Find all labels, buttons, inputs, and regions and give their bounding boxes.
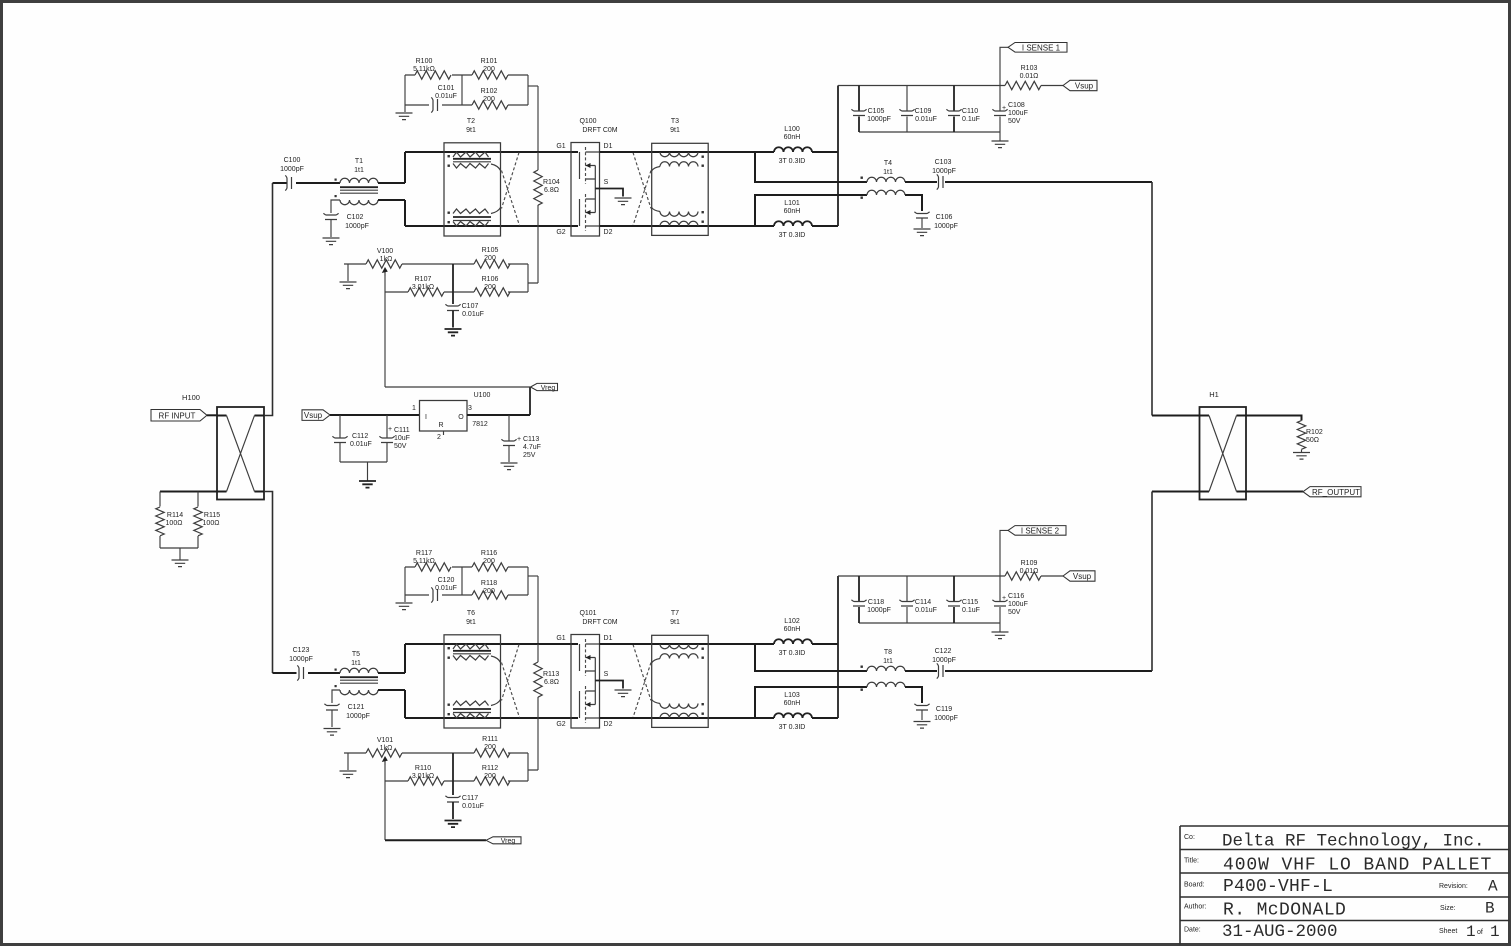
svg-text:C117: C117 bbox=[462, 795, 478, 802]
svg-text:2: 2 bbox=[437, 434, 441, 441]
svg-text:0.01Ω: 0.01Ω bbox=[1020, 568, 1039, 575]
wire: T7 input crossover X bbox=[633, 645, 651, 718]
net tag Vreg (top) bbox=[531, 383, 558, 391]
wire: supply rail vertical bbox=[837, 86, 839, 227]
svg-text:L101: L101 bbox=[784, 200, 800, 207]
svg-text:I SENSE 2: I SENSE 2 bbox=[1021, 527, 1060, 536]
svg-text:I: I bbox=[425, 414, 427, 421]
wire: H1 bottom port from column bbox=[1152, 491, 1200, 493]
svg-text:0.1uF: 0.1uF bbox=[962, 607, 980, 614]
inductor L103 60nH bbox=[774, 692, 812, 731]
wire: L101 to supply rail bbox=[812, 225, 838, 227]
ground below C119 bbox=[914, 722, 931, 729]
svg-text:50Ω: 50Ω bbox=[1306, 437, 1319, 444]
capacitor C107 0.01uF bbox=[445, 303, 483, 328]
wire: gate bias box bottom row (C101/R102 row) bbox=[405, 104, 528, 106]
capacitor C106 1000pF bbox=[914, 212, 957, 230]
svg-text:1000pF: 1000pF bbox=[932, 168, 956, 175]
wire: I SENSE 2 stub bbox=[1000, 530, 1008, 576]
svg-text:C120: C120 bbox=[438, 577, 455, 584]
node D1 wire lower (Q101 through T7) bbox=[600, 643, 775, 645]
svg-text:T6: T6 bbox=[467, 610, 475, 617]
svg-text:9t1: 9t1 bbox=[670, 127, 680, 134]
wire: lower bank ground stem bbox=[999, 623, 1001, 632]
svg-text:T1: T1 bbox=[355, 158, 363, 165]
svg-text:R104: R104 bbox=[543, 179, 560, 186]
node G1 wire bbox=[405, 151, 578, 153]
svg-text:G1: G1 bbox=[556, 635, 565, 642]
transformer T2 9t1 bbox=[444, 118, 501, 236]
wire: I SENSE 1 stub bbox=[1000, 47, 1008, 85]
svg-text:R116: R116 bbox=[481, 550, 497, 557]
wire: rise to T4 lower line bbox=[755, 195, 867, 226]
svg-text:400W VHF LO BAND PALLET: 400W VHF LO BAND PALLET bbox=[1223, 856, 1492, 876]
ground below C113 bbox=[501, 463, 518, 470]
wire: bias box mid vertical bbox=[461, 75, 463, 105]
resistor R116 200 bbox=[472, 563, 508, 571]
wire: V101 wiper vertical to lower Vreg line bbox=[384, 765, 386, 840]
svg-text:200: 200 bbox=[484, 255, 496, 262]
svg-text:C113: C113 bbox=[523, 436, 539, 443]
resistor R100 5.11k bbox=[415, 71, 451, 79]
wire: lower output vertical up to H1 bbox=[1151, 492, 1153, 672]
wire: L102 to lower supply rail bbox=[812, 643, 838, 645]
svg-text:Board:: Board: bbox=[1184, 882, 1205, 889]
capacitor C100 1000pF bbox=[285, 175, 291, 190]
svg-text:7812: 7812 bbox=[472, 421, 488, 428]
wire: RF INPUT to H100 bbox=[207, 414, 217, 416]
svg-text:60nH: 60nH bbox=[784, 134, 801, 141]
svg-text:6.8Ω: 6.8Ω bbox=[544, 679, 559, 686]
transformer T8 1t1 bbox=[861, 649, 906, 691]
svg-text:1kΩ: 1kΩ bbox=[380, 745, 393, 752]
ground below C102 bbox=[323, 238, 340, 245]
svg-text:Vsup: Vsup bbox=[1075, 82, 1094, 91]
transistor Q100 DRFT COM dual MOSFET bbox=[556, 118, 617, 236]
svg-text:0.01uF: 0.01uF bbox=[435, 93, 457, 100]
capacitor C101 0.01uF bbox=[431, 97, 437, 112]
resistor R118 200 bbox=[472, 591, 508, 599]
wire: input verticals joining T5 to lower G lines bbox=[404, 644, 406, 718]
svg-text:3T 0.3ID: 3T 0.3ID bbox=[779, 158, 806, 165]
svg-text:3.01kΩ: 3.01kΩ bbox=[412, 284, 434, 291]
svg-text:1000pF: 1000pF bbox=[934, 715, 958, 722]
wire: lower decoupling bank bottom rail bbox=[859, 622, 1000, 624]
ground at Q100 source bbox=[615, 198, 632, 205]
hybrid H1 bbox=[1200, 390, 1247, 500]
wire: V100 left lead and ground stem bbox=[344, 264, 366, 281]
capacitor C118 1000pF bbox=[851, 576, 890, 623]
svg-text:C111: C111 bbox=[394, 427, 410, 434]
svg-text:Vreg: Vreg bbox=[501, 838, 516, 845]
svg-text:1t1: 1t1 bbox=[354, 167, 364, 174]
ground below C121 bbox=[324, 729, 341, 736]
svg-text:Title:: Title: bbox=[1184, 858, 1199, 865]
ground below lower bias box bbox=[404, 595, 406, 602]
svg-text:RF_OUTPUT: RF_OUTPUT bbox=[1312, 488, 1360, 497]
svg-text:1: 1 bbox=[1466, 923, 1476, 941]
svg-text:C119: C119 bbox=[936, 706, 952, 713]
ground below bank bbox=[992, 141, 1009, 148]
node G2 wire bbox=[405, 225, 578, 227]
net tag I SENSE 2 bbox=[1008, 526, 1066, 536]
capacitor C114 0.01uF bbox=[899, 576, 936, 623]
svg-text:1000pF: 1000pF bbox=[932, 657, 956, 664]
net tag Vsup (top right) bbox=[1063, 80, 1097, 90]
wire: C102 drop from T1 bbox=[331, 200, 340, 237]
capacitor C121 1000pF bbox=[324, 704, 339, 710]
capacitor C109 0.01uF bbox=[899, 86, 936, 133]
svg-text:C121: C121 bbox=[348, 704, 365, 711]
inductor L101 60nH bbox=[774, 200, 812, 239]
svg-text:R106: R106 bbox=[482, 276, 499, 283]
svg-text:1000pF: 1000pF bbox=[867, 607, 891, 614]
svg-text:50V: 50V bbox=[1008, 609, 1021, 616]
wire: G2 bias vertical below bbox=[537, 226, 539, 283]
svg-text:60nH: 60nH bbox=[784, 208, 801, 215]
svg-text:C118: C118 bbox=[868, 599, 884, 606]
svg-text:DRFT C0M: DRFT C0M bbox=[582, 127, 617, 134]
wire: bias vertical down to lower G1 bbox=[537, 576, 539, 644]
svg-text:100uF: 100uF bbox=[1008, 601, 1028, 608]
wire: input verticals joining T1 to G lines bbox=[404, 152, 406, 226]
wire: lower output line to H1 column bbox=[945, 670, 1152, 672]
svg-text:C107: C107 bbox=[462, 303, 479, 310]
wire: H100 top out up to C100 line bbox=[264, 183, 273, 416]
svg-text:T7: T7 bbox=[671, 610, 679, 617]
svg-text:0.01uF: 0.01uF bbox=[462, 803, 484, 810]
svg-text:6.8Ω: 6.8Ω bbox=[544, 187, 559, 194]
svg-text:0.1uF: 0.1uF bbox=[962, 116, 980, 123]
wire: upper output line to H1 column bbox=[945, 181, 1152, 183]
resistor R104 6.8 (gate-gate) bbox=[534, 152, 560, 226]
svg-text:C103: C103 bbox=[935, 159, 952, 166]
svg-text:D2: D2 bbox=[604, 721, 613, 728]
svg-text:0.01uF: 0.01uF bbox=[915, 607, 937, 614]
capacitor C103 1000pF bbox=[937, 174, 943, 189]
svg-text:C116: C116 bbox=[1008, 593, 1024, 600]
capacitor C117 0.01uF bbox=[445, 795, 483, 819]
capacitor C108 100uF 50V bbox=[992, 86, 1027, 133]
svg-text:C123: C123 bbox=[293, 647, 310, 654]
svg-text:1: 1 bbox=[412, 405, 416, 412]
hybrid H100 bbox=[182, 393, 264, 500]
svg-text:1000pF: 1000pF bbox=[346, 713, 370, 720]
ground at V100 left bbox=[340, 282, 357, 289]
wire: lower supply rail vertical bbox=[837, 576, 839, 718]
net tag Vreg (bottom) bbox=[486, 837, 521, 845]
svg-text:L103: L103 bbox=[784, 692, 800, 699]
svg-text:R114: R114 bbox=[167, 512, 183, 519]
svg-text:60nH: 60nH bbox=[784, 626, 801, 633]
svg-text:D1: D1 bbox=[604, 143, 613, 150]
svg-text:200: 200 bbox=[483, 588, 495, 595]
wire: T5 secondary ends to vertical bbox=[378, 673, 405, 690]
wire: Vreg line to pot wiper bbox=[385, 386, 530, 388]
svg-text:H1: H1 bbox=[1209, 390, 1219, 399]
transformer T4 1t1 bbox=[861, 160, 906, 199]
resistor R111 200 bbox=[474, 736, 510, 757]
capacitor C119 1000pF bbox=[914, 704, 957, 722]
resistor R113 6.8 (gate-gate lower) bbox=[534, 644, 560, 718]
svg-text:C110: C110 bbox=[962, 108, 978, 115]
wire: lower decoupling bank top rail bbox=[838, 575, 1005, 577]
potentiometer V101 1k bbox=[366, 737, 402, 765]
transformer T5 1t1 bbox=[335, 651, 379, 695]
svg-text:C102: C102 bbox=[347, 214, 364, 221]
svg-text:R102: R102 bbox=[1306, 429, 1323, 436]
capacitor C111 10uF 50V bbox=[379, 415, 410, 462]
svg-text:R117: R117 bbox=[416, 550, 432, 557]
svg-text:9t1: 9t1 bbox=[466, 127, 476, 134]
wire: T4 top out to C103 bbox=[905, 181, 937, 183]
wire: T6 output crossover X bbox=[502, 645, 520, 718]
svg-text:0.01Ω: 0.01Ω bbox=[1020, 73, 1039, 80]
wire: bias box left vertical bbox=[404, 75, 406, 105]
svg-text:200: 200 bbox=[484, 773, 496, 780]
svg-text:31-AUG-2000: 31-AUG-2000 bbox=[1222, 922, 1338, 942]
svg-text:G2: G2 bbox=[556, 229, 565, 236]
ground below C112/C111 bbox=[359, 481, 376, 488]
svg-text:T5: T5 bbox=[352, 651, 360, 658]
svg-text:Size:: Size: bbox=[1440, 905, 1456, 912]
net tag RF INPUT bbox=[151, 410, 207, 422]
net tag RF_OUTPUT bbox=[1303, 487, 1361, 497]
ground below C107 bbox=[445, 329, 462, 336]
svg-text:V100: V100 bbox=[377, 248, 393, 255]
inductor L102 60nH bbox=[774, 618, 812, 657]
wire: T4 bottom out bbox=[905, 195, 922, 211]
wire: C123 line from input vertical bbox=[273, 672, 341, 674]
wire: lower bias right edge vertical + stub bbox=[528, 753, 538, 781]
capacitor C123 1000pF bbox=[297, 665, 303, 680]
node D2 wire lower (Q101 through T7) bbox=[600, 717, 775, 719]
svg-text:200: 200 bbox=[484, 744, 496, 751]
svg-text:Date:: Date: bbox=[1184, 927, 1201, 934]
svg-text:1000pF: 1000pF bbox=[934, 223, 958, 230]
resistor R106 200 bbox=[474, 276, 510, 296]
ground below bias box bbox=[404, 105, 406, 112]
wire: Q100 source to ground bbox=[595, 189, 623, 197]
ground below load bbox=[1293, 453, 1310, 460]
svg-text:I SENSE 1: I SENSE 1 bbox=[1022, 44, 1061, 53]
wire: Vsup to U100 pin1 bbox=[330, 414, 420, 416]
svg-text:C108: C108 bbox=[1008, 102, 1025, 109]
wire: bank ground stem bbox=[999, 132, 1001, 141]
svg-text:200: 200 bbox=[484, 284, 496, 291]
svg-text:T4: T4 bbox=[884, 160, 892, 167]
svg-text:10uF: 10uF bbox=[394, 435, 410, 442]
transformer T1 1t1 bbox=[335, 158, 379, 205]
svg-text:D2: D2 bbox=[604, 229, 613, 236]
wire: termination bottom rail + ground stem bbox=[160, 548, 198, 560]
wire: lower bias box bottom row (C120/R118 row) bbox=[405, 594, 528, 596]
capacitor C116 100uF 50V bbox=[992, 576, 1027, 623]
svg-text:R113: R113 bbox=[543, 671, 559, 678]
svg-text:200: 200 bbox=[483, 558, 495, 565]
svg-text:C101: C101 bbox=[438, 85, 455, 92]
wire: T2 output crossover X bbox=[502, 153, 520, 226]
wire: C121 drop from T5 bbox=[332, 690, 340, 727]
svg-text:3T 0.3ID: 3T 0.3ID bbox=[779, 650, 806, 657]
svg-text:100Ω: 100Ω bbox=[203, 520, 220, 527]
wire: H1 isolated port to load bbox=[1246, 416, 1302, 421]
svg-text:3: 3 bbox=[468, 405, 472, 412]
svg-text:S: S bbox=[604, 179, 609, 186]
wire: lower G2 bias vertical below bbox=[537, 718, 539, 770]
net tag I SENSE 1 bbox=[1008, 43, 1067, 53]
svg-text:V101: V101 bbox=[377, 737, 393, 744]
wire: lower bias box top row (R117/R116 row) bbox=[405, 566, 528, 568]
wire: decoupling bank bottom rail bbox=[859, 131, 1000, 133]
node G1 wire lower bbox=[405, 643, 578, 645]
wire: T8 top out to C122 bbox=[905, 670, 937, 672]
resistor R102 200 bbox=[472, 101, 508, 109]
svg-text:1000pF: 1000pF bbox=[345, 223, 369, 230]
svg-text:Revision:: Revision: bbox=[1439, 883, 1468, 890]
svg-text:of: of bbox=[1477, 929, 1483, 936]
svg-text:0.01uF: 0.01uF bbox=[350, 441, 372, 448]
wire: drop to T8 upper line bbox=[755, 644, 867, 671]
svg-text:1t1: 1t1 bbox=[883, 169, 893, 176]
svg-text:4.7uF: 4.7uF bbox=[523, 444, 541, 451]
resistor R115 100 bbox=[194, 492, 220, 549]
wire: H1 top port from column bbox=[1152, 415, 1200, 417]
wire: V100 wiper vertical to Vreg line bbox=[384, 276, 386, 387]
svg-text:Vsup: Vsup bbox=[1073, 572, 1092, 581]
svg-text:0.01uF: 0.01uF bbox=[462, 311, 484, 318]
node D2 wire (Q100 through T3 to L101 junction) bbox=[600, 225, 775, 227]
svg-text:1kΩ: 1kΩ bbox=[380, 256, 393, 263]
svg-text:G2: G2 bbox=[556, 721, 565, 728]
svg-text:Q100: Q100 bbox=[579, 118, 596, 125]
wire: L103 to lower supply rail bbox=[812, 717, 838, 719]
wire: Q101 source to ground bbox=[595, 681, 623, 689]
wire: lower bias box verticals bbox=[405, 567, 528, 595]
svg-text:R118: R118 bbox=[481, 580, 497, 587]
svg-text:R110: R110 bbox=[415, 765, 431, 772]
wire: decoupling bank top rail bbox=[838, 85, 1005, 87]
svg-text:C115: C115 bbox=[962, 599, 978, 606]
svg-text:+: + bbox=[1002, 105, 1006, 112]
resistor R114 100 bbox=[156, 492, 183, 549]
svg-text:100uF: 100uF bbox=[1008, 110, 1028, 117]
svg-text:DRFT C0M: DRFT C0M bbox=[582, 619, 617, 626]
svg-text:O: O bbox=[458, 414, 464, 421]
svg-text:H100: H100 bbox=[182, 393, 200, 402]
transformer T6 9t1 bbox=[444, 610, 501, 728]
net tag Vsup (regulator input) bbox=[302, 410, 330, 421]
svg-text:L100: L100 bbox=[784, 126, 800, 133]
svg-text:+: + bbox=[388, 426, 392, 433]
potentiometer V100 1k bbox=[366, 248, 402, 276]
transistor Q101 DRFT COM dual MOSFET bbox=[556, 610, 617, 728]
svg-text:S: S bbox=[604, 671, 609, 678]
svg-text:50V: 50V bbox=[394, 443, 407, 450]
resistor R117 5.11k bbox=[415, 563, 451, 571]
wire: C117 junction vertical bbox=[452, 753, 454, 795]
svg-text:R. McDONALD: R. McDONALD bbox=[1223, 901, 1346, 921]
svg-text:R115: R115 bbox=[204, 512, 220, 519]
svg-text:1: 1 bbox=[1490, 923, 1500, 941]
svg-text:3T 0.3ID: 3T 0.3ID bbox=[779, 724, 806, 731]
svg-text:100Ω: 100Ω bbox=[166, 520, 183, 527]
wire: R107 row bbox=[385, 291, 528, 293]
svg-text:C112: C112 bbox=[352, 433, 368, 440]
wire: T3 input crossover X bbox=[633, 153, 651, 226]
svg-text:R100: R100 bbox=[416, 58, 433, 65]
svg-text:1000pF: 1000pF bbox=[289, 656, 313, 663]
wire: R110 row bbox=[385, 780, 528, 782]
wire: rise to T8 lower line bbox=[755, 687, 867, 718]
svg-text:C100: C100 bbox=[284, 157, 301, 164]
svg-text:B: B bbox=[1485, 900, 1495, 918]
svg-text:R102: R102 bbox=[481, 88, 498, 95]
wire: bias feed stub to gate column bbox=[528, 85, 538, 87]
node D1 wire (Q100 through T3 to L100 junction) bbox=[600, 151, 775, 153]
inductor L100 60nH bbox=[774, 126, 812, 165]
capacitor C102 1000pF bbox=[323, 213, 338, 219]
svg-text:R101: R101 bbox=[481, 58, 498, 65]
svg-text:Vsup: Vsup bbox=[304, 411, 323, 420]
wire: Vreg junction vertical bbox=[529, 387, 531, 415]
svg-text:R: R bbox=[438, 422, 443, 429]
wire: U100 output row bbox=[467, 414, 530, 416]
svg-text:R112: R112 bbox=[482, 765, 498, 772]
svg-text:A: A bbox=[1488, 878, 1498, 896]
resistor R109 0.01ohm bbox=[1005, 560, 1063, 580]
wire: H100 bottom out down to lower chain bbox=[264, 492, 273, 674]
svg-text:R103: R103 bbox=[1021, 65, 1038, 72]
ground at V101 left bbox=[340, 771, 357, 778]
regulator U100 7812 bbox=[412, 392, 490, 441]
wire: lower Vreg line bbox=[385, 839, 486, 841]
ground below R114/R115 bbox=[172, 560, 189, 567]
svg-text:R107: R107 bbox=[415, 276, 432, 283]
resistor R112 200 bbox=[474, 765, 510, 785]
svg-text:1t1: 1t1 bbox=[351, 660, 361, 667]
svg-text:1000pF: 1000pF bbox=[867, 116, 891, 123]
svg-text:Co:: Co: bbox=[1184, 834, 1195, 841]
wire: L100 to supply rail bbox=[812, 151, 838, 153]
wire: T8 bottom out bbox=[905, 687, 922, 703]
wire: V101 left lead and ground stem bbox=[344, 753, 366, 770]
svg-text:C105: C105 bbox=[868, 108, 885, 115]
wire: bias box right vertical bbox=[527, 75, 529, 105]
capacitor C110 0.1uF bbox=[946, 86, 980, 133]
svg-text:R109: R109 bbox=[1021, 560, 1038, 567]
svg-text:T3: T3 bbox=[671, 118, 679, 125]
svg-text:R105: R105 bbox=[482, 247, 499, 254]
ground below C117 bbox=[445, 821, 462, 828]
wire: C100 line from input vertical bbox=[273, 182, 341, 184]
wire: drop to T4 upper line bbox=[755, 152, 867, 182]
svg-text:T2: T2 bbox=[467, 118, 475, 125]
wire: gate bias box top row (R100/R101 row) bbox=[405, 74, 528, 76]
svg-text:T8: T8 bbox=[884, 649, 892, 656]
ground below C106 bbox=[914, 229, 931, 236]
svg-text:1t1: 1t1 bbox=[883, 658, 893, 665]
wire: H100 lower-left termination run bbox=[160, 491, 217, 493]
wire: T1 secondary ends to vertical bbox=[378, 183, 405, 200]
capacitor C112 0.01uF bbox=[332, 415, 371, 462]
capacitor C115 0.1uF bbox=[946, 576, 980, 623]
resistor R110 3.01k bbox=[408, 765, 444, 785]
svg-text:C109: C109 bbox=[915, 108, 932, 115]
svg-text:5.11kΩ: 5.11kΩ bbox=[413, 558, 435, 565]
svg-text:200: 200 bbox=[483, 96, 495, 103]
resistor R103 0.01ohm bbox=[1005, 65, 1063, 90]
